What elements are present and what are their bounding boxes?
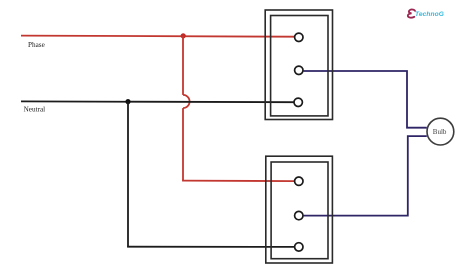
wire red horizontal to switch 2 terminal 1 xyxy=(182,180,294,183)
logo ETechnoG xyxy=(408,9,444,18)
terminal SW2-2 xyxy=(295,211,303,219)
svg-text:Phase: Phase xyxy=(28,41,45,49)
svg-text:Bulb: Bulb xyxy=(433,128,447,136)
wire black drop from neutral junction xyxy=(127,102,129,247)
node phase junction xyxy=(181,33,186,38)
switch SW1 inner box xyxy=(271,16,328,116)
terminal SW1-2 xyxy=(295,66,303,74)
node neutral junction xyxy=(125,99,130,104)
lamp bulb circle xyxy=(427,118,454,145)
wire hop over neutral (red crossover arc) xyxy=(183,95,190,108)
wire phase line (red horizontal) xyxy=(21,36,294,37)
switch SW2 outer box xyxy=(266,156,333,263)
wire navy from switch 2 common to bulb xyxy=(304,136,427,216)
wire red drop from phase junction (upper part) xyxy=(182,36,184,95)
terminal SW1-3 xyxy=(294,98,302,106)
wire black horizontal to switch 2 terminal 3 xyxy=(127,246,294,248)
switch SW2 inner box xyxy=(271,162,328,259)
terminal SW1-1 xyxy=(295,33,303,41)
wire navy from switch 1 common to bulb xyxy=(304,71,427,128)
switch SW1 outer box xyxy=(265,10,332,120)
terminal SW2-3 xyxy=(295,243,303,251)
wire red drop continues to lower corner xyxy=(182,108,184,181)
terminal SW2-1 xyxy=(295,177,303,185)
svg-text:TechnoG: TechnoG xyxy=(415,11,444,18)
svg-text:Neutral: Neutral xyxy=(24,106,46,114)
wire neutral line (black horizontal) xyxy=(21,100,294,103)
